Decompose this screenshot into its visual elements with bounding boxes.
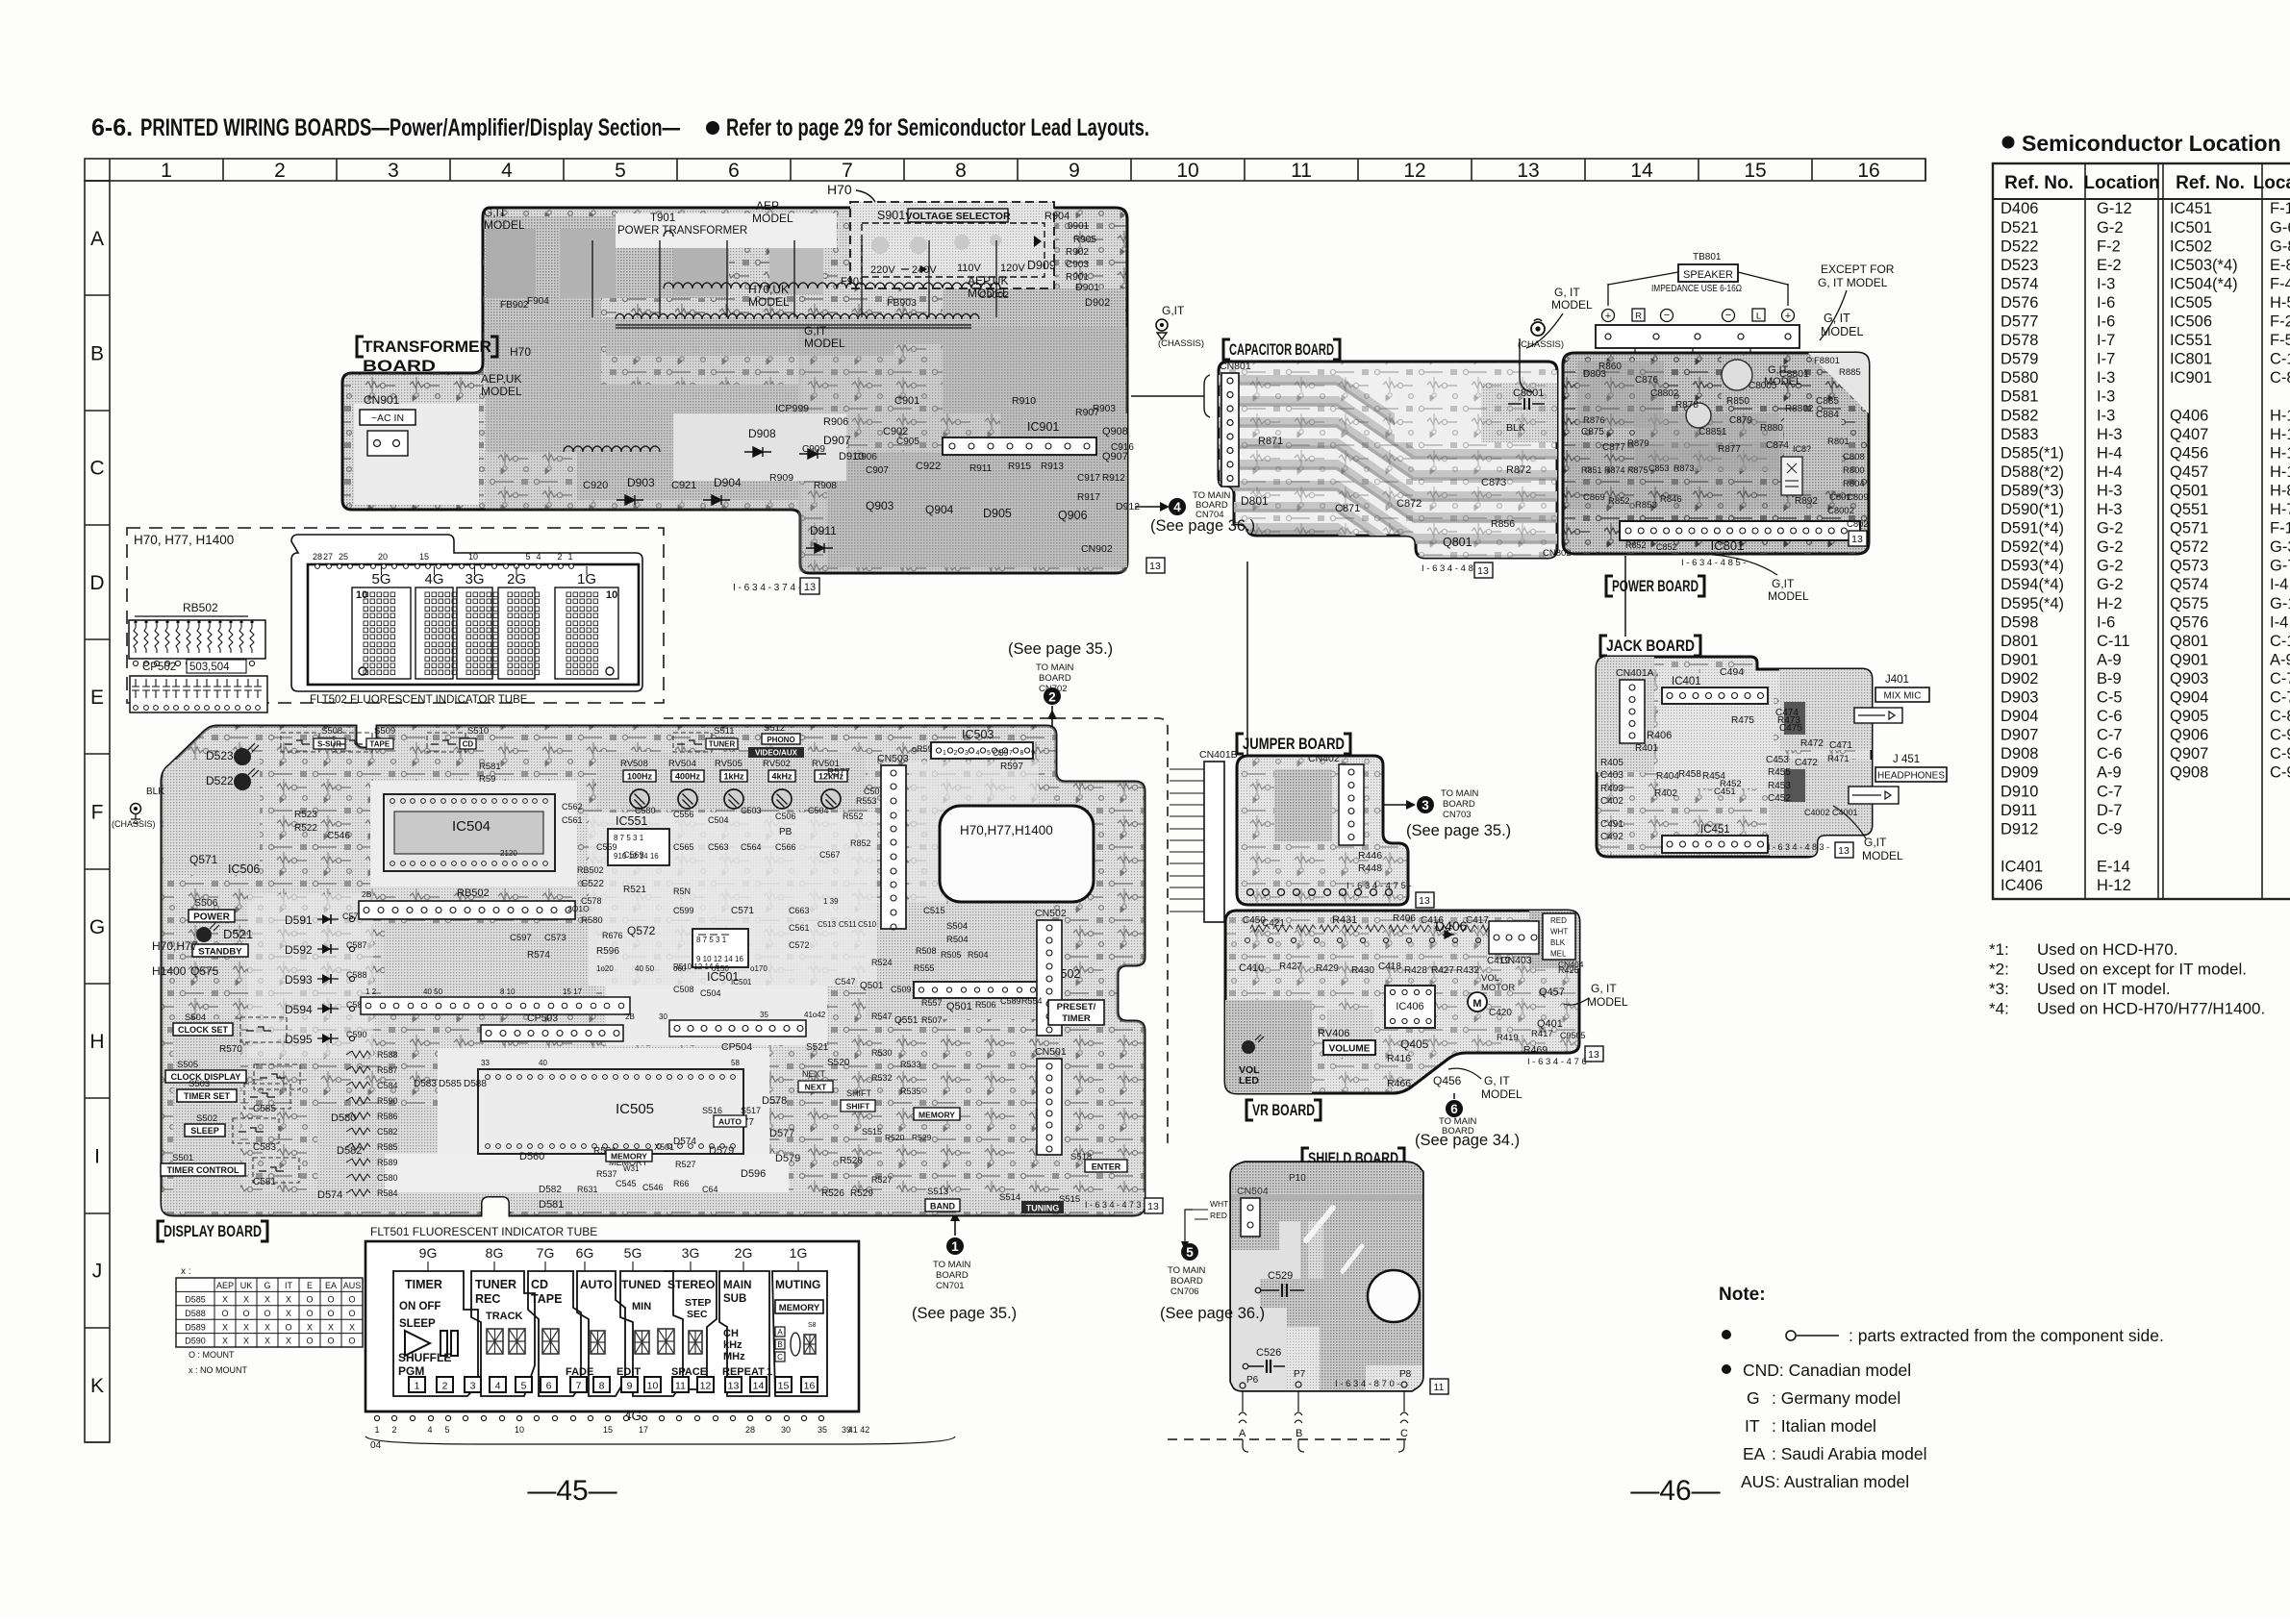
svg-text:I - 6 3 4 - 4 8 3 -: I - 6 3 4 - 4 8 3 - [1768, 842, 1829, 852]
svg-text:4: 4 [427, 1425, 432, 1435]
svg-text:B-9: B-9 [2097, 670, 2122, 687]
svg-text:R66: R66 [673, 1179, 690, 1188]
equalizer trimmer row RV508 RV504 RV505 RV502 RV501 [620, 759, 847, 809]
svg-text:C876: C876 [1635, 375, 1658, 386]
svg-text:R507: R507 [921, 1015, 943, 1025]
svg-text:R446: R446 [1358, 850, 1382, 862]
svg-text:35: 35 [760, 1011, 768, 1019]
svg-text:D585(*1): D585(*1) [2001, 444, 2064, 462]
svg-text:C529: C529 [1268, 1270, 1293, 1282]
svg-text:15: 15 [419, 552, 429, 562]
svg-text:CN703: CN703 [1443, 810, 1472, 820]
svg-text:R587: R587 [377, 1065, 398, 1075]
svg-text:C920: C920 [583, 480, 608, 491]
svg-text:2: 2 [557, 552, 562, 562]
svg-text:I-3: I-3 [2097, 275, 2115, 292]
svg-text:H-13: H-13 [2270, 463, 2290, 481]
svg-text:6: 6 [728, 160, 740, 182]
svg-text:G-2: G-2 [2097, 538, 2124, 556]
svg-text:C-5: C-5 [2097, 689, 2123, 707]
svg-text:Q571: Q571 [189, 853, 218, 866]
svg-text:o60: o60 [673, 964, 687, 973]
svg-text:R905: R905 [1073, 235, 1096, 245]
svg-text:G-8: G-8 [2270, 237, 2290, 255]
svg-text:A: A [777, 1328, 783, 1337]
diode column D591-D595 [285, 912, 367, 1046]
svg-text:16: 16 [1857, 160, 1879, 182]
svg-text:R402: R402 [1654, 788, 1677, 799]
svg-text:M: M [1472, 998, 1481, 1010]
svg-text:JACK BOARD: JACK BOARD [1606, 637, 1695, 655]
jack board outline and texture [1597, 657, 1875, 859]
except for G IT model label [1818, 262, 1895, 340]
svg-text:30: 30 [659, 1012, 667, 1021]
svg-text:C403: C403 [1600, 770, 1623, 781]
svg-text:O: O [306, 1309, 313, 1318]
svg-text:CN402: CN402 [1308, 753, 1340, 764]
svg-text:I-6: I-6 [2097, 294, 2115, 312]
svg-text:10: 10 [468, 552, 478, 562]
svg-text:R554: R554 [1021, 996, 1043, 1006]
VR board top resistor row [1246, 925, 1504, 943]
svg-text:D592(*4): D592(*4) [2001, 538, 2064, 556]
sheet code 13 transformer [800, 578, 819, 594]
mount option table [176, 1266, 363, 1375]
svg-text:R676: R676 [602, 931, 623, 940]
svg-text:R406: R406 [1647, 730, 1672, 741]
svg-text:Q501: Q501 [2170, 482, 2208, 499]
svg-text:G-1: G-1 [2270, 595, 2290, 612]
svg-text:MODEL: MODEL [484, 218, 525, 232]
VR board outline and texture [1225, 911, 1579, 1096]
svg-text:R466: R466 [1387, 1078, 1411, 1089]
svg-text:D905: D905 [983, 507, 1012, 520]
svg-text:IC504: IC504 [452, 818, 491, 835]
svg-text:D523: D523 [2001, 257, 2038, 274]
svg-text:0901: 0901 [1068, 221, 1090, 232]
svg-text:WHT: WHT [1550, 928, 1568, 937]
svg-text:D522: D522 [2001, 237, 2038, 255]
svg-text:C802: C802 [1847, 519, 1869, 530]
svg-text:D579: D579 [775, 1153, 800, 1164]
svg-text:R851: R851 [1581, 465, 1602, 475]
dashed boundary lines [664, 718, 1410, 1439]
svg-text:4kHz: 4kHz [771, 772, 793, 782]
svg-text:D406: D406 [1435, 918, 1468, 934]
grid ruler left band with row letters A-K [85, 181, 110, 1442]
svg-text:R856: R856 [1491, 518, 1515, 530]
svg-text:C587: C587 [346, 940, 367, 950]
svg-text:C922: C922 [916, 461, 941, 472]
svg-text:C-6: C-6 [2097, 708, 2123, 725]
svg-text:R860: R860 [1598, 362, 1622, 372]
svg-text:O: O [264, 1309, 270, 1318]
svg-text:STANDBY: STANDBY [198, 947, 242, 958]
svg-text:H-12: H-12 [2270, 407, 2290, 424]
svg-text:F-1: F-1 [2270, 520, 2290, 537]
svg-text:4: 4 [976, 750, 980, 757]
svg-text:13: 13 [1149, 561, 1161, 572]
svg-text:R879: R879 [1627, 438, 1649, 449]
svg-text:C522: C522 [581, 879, 604, 889]
svg-text:13: 13 [1477, 565, 1489, 577]
svg-text:R553: R553 [856, 796, 877, 806]
svg-text:D903: D903 [2001, 689, 2038, 707]
svg-text:4: 4 [1173, 500, 1181, 514]
svg-text:STEREO: STEREO [667, 1278, 715, 1291]
svg-text:Q572: Q572 [2170, 538, 2208, 556]
svg-text:C917: C917 [1077, 473, 1100, 484]
svg-text:C545: C545 [616, 1179, 637, 1188]
svg-text:C453: C453 [1766, 755, 1789, 765]
svg-text:UK: UK [240, 1281, 253, 1290]
svg-text:I-3: I-3 [2097, 369, 2115, 387]
svg-text:C583: C583 [253, 1142, 276, 1153]
svg-text:R520: R520 [885, 1133, 905, 1142]
svg-text:G-2: G-2 [2097, 520, 2124, 537]
svg-text:Q572: Q572 [627, 924, 656, 937]
svg-text:C580: C580 [635, 806, 656, 815]
svg-text:STEP: STEP [685, 1297, 711, 1309]
svg-text:C504: C504 [708, 815, 729, 825]
svg-text:D560: D560 [519, 1151, 544, 1162]
svg-text:IC406: IC406 [2001, 877, 2043, 894]
svg-text:3: 3 [388, 160, 399, 182]
svg-text:X: X [264, 1337, 270, 1346]
svg-text:C-7: C-7 [2097, 783, 2123, 800]
svg-text:*3:: *3: [1989, 980, 2009, 998]
svg-text:SLEEP: SLEEP [399, 1318, 436, 1330]
svg-text:R873: R873 [1673, 463, 1695, 473]
svg-text:R533: R533 [900, 1060, 921, 1069]
svg-text:MODEL: MODEL [748, 295, 790, 309]
C8001 capacitor above board [1508, 338, 1545, 410]
svg-text:X: X [222, 1295, 228, 1305]
svg-text:−: − [1664, 310, 1670, 321]
svg-text:AUTO: AUTO [718, 1117, 742, 1127]
svg-text:Q906: Q906 [2170, 727, 2208, 744]
svg-text:R527: R527 [871, 1175, 893, 1185]
svg-text:D908: D908 [2001, 745, 2038, 762]
capacitor board part number I-634-484 [1422, 563, 1487, 574]
svg-text:CN503: CN503 [877, 753, 909, 764]
svg-text:C869: C869 [1583, 492, 1605, 503]
svg-text:C573: C573 [544, 933, 566, 943]
svg-text:Q457: Q457 [2170, 463, 2208, 481]
CN504 connector on shield board [1181, 1186, 1269, 1251]
svg-text:C410: C410 [1239, 962, 1264, 974]
svg-text:C452: C452 [1768, 793, 1791, 804]
svg-text:X501: X501 [654, 1142, 674, 1152]
svg-text:TRACK: TRACK [486, 1311, 523, 1322]
svg-text:IC451: IC451 [2170, 200, 2212, 217]
svg-text:K: K [90, 1375, 104, 1397]
svg-text:41o42: 41o42 [804, 1011, 826, 1019]
svg-text:G, IT: G, IT [1554, 286, 1580, 299]
svg-text:8 10: 8 10 [500, 987, 516, 996]
svg-text:C599: C599 [673, 906, 694, 915]
svg-text:IC406: IC406 [1396, 1001, 1423, 1012]
svg-text:S513: S513 [927, 1187, 948, 1197]
svg-text:R535: R535 [900, 1087, 921, 1096]
svg-text:G,IT: G,IT [1772, 577, 1795, 590]
svg-text:13: 13 [1838, 845, 1850, 857]
svg-text:D910: D910 [2001, 783, 2038, 800]
svg-text:X: X [243, 1337, 249, 1346]
svg-text:28: 28 [313, 552, 322, 562]
svg-text:8G: 8G [486, 1245, 504, 1261]
svg-text:D580: D580 [331, 1112, 356, 1124]
svg-text:R910: R910 [1012, 395, 1036, 407]
svg-text:IMPEDANCE USE 6-16Ω: IMPEDANCE USE 6-16Ω [1651, 284, 1742, 294]
svg-text:R912: R912 [1102, 473, 1125, 484]
power board outline and texture [1563, 353, 1869, 554]
svg-text:R590: R590 [377, 1096, 398, 1106]
transformer board outline and copper texture [342, 208, 1127, 573]
svg-text:R8802: R8802 [1785, 404, 1814, 414]
svg-text:MIX MIC: MIX MIC [1884, 691, 1922, 702]
svg-text:D591(*4): D591(*4) [2001, 520, 2064, 537]
svg-text:I-6: I-6 [2097, 613, 2115, 631]
svg-text:R427: R427 [1431, 965, 1454, 976]
sheet code 13 VR board [1585, 1046, 1603, 1062]
svg-text:8 7 5 3 1: 8 7 5 3 1 [696, 936, 727, 944]
svg-text:PB: PB [779, 827, 793, 837]
jumper part number I-634-475 [1346, 881, 1412, 891]
svg-text:C663: C663 [789, 906, 810, 915]
svg-text:TO MAIN: TO MAIN [933, 1260, 971, 1270]
svg-text:BOARD: BOARD [1170, 1276, 1203, 1287]
svg-text:D585: D585 [439, 1079, 462, 1089]
svg-text:C50: C50 [864, 787, 880, 796]
svg-text:*1:: *1: [1989, 940, 2009, 959]
svg-text:3: 3 [1422, 798, 1429, 812]
svg-text:C509: C509 [891, 985, 912, 994]
svg-text:C565: C565 [673, 842, 694, 852]
svg-text:H70, H77, H1400: H70, H77, H1400 [134, 533, 234, 547]
svg-text:AEP,UK: AEP,UK [481, 372, 521, 386]
svg-text:*4:: *4: [1989, 1000, 2009, 1018]
svg-text:CN502: CN502 [1035, 908, 1067, 919]
callout 4 to main board CN704 [1135, 490, 1255, 535]
svg-text:D581: D581 [539, 1199, 564, 1211]
svg-text:C809: C809 [1847, 492, 1869, 503]
jumper board name label [1237, 734, 1350, 754]
svg-text:C420: C420 [1489, 1008, 1512, 1018]
svg-text:EA: EA [325, 1281, 337, 1290]
svg-text:JUMPER BOARD: JUMPER BOARD [1243, 735, 1345, 753]
svg-text:H-5: H-5 [2270, 294, 2290, 312]
CN901 AC IN connector [360, 393, 415, 456]
svg-text:C504: C504 [808, 806, 829, 815]
svg-text:17: 17 [639, 1425, 648, 1435]
svg-text:R522: R522 [294, 823, 317, 834]
svg-text:04: 04 [370, 1440, 382, 1451]
svg-text:R850: R850 [1726, 396, 1749, 407]
svg-text:P10: P10 [1289, 1173, 1306, 1184]
svg-text:C885: C885 [1816, 396, 1839, 407]
svg-text:G, IT MODEL: G, IT MODEL [1818, 276, 1888, 289]
svg-text:G, IT: G, IT [1591, 982, 1617, 995]
svg-text:R555: R555 [914, 963, 935, 973]
svg-text:BLK: BLK [146, 787, 164, 797]
svg-text:C580: C580 [377, 1173, 398, 1183]
svg-text:C588: C588 [346, 970, 367, 980]
svg-text:25: 25 [339, 552, 348, 562]
svg-text:C901: C901 [894, 395, 919, 407]
svg-text:F-4: F-4 [2270, 275, 2290, 292]
svg-text:X: X [243, 1322, 249, 1332]
svg-text:X: X [286, 1309, 291, 1318]
svg-text:R537: R537 [596, 1169, 617, 1179]
svg-text:C556: C556 [673, 810, 694, 819]
svg-text:D596: D596 [741, 1168, 766, 1180]
svg-text:H-4: H-4 [2097, 463, 2123, 481]
svg-text:O: O [348, 1295, 355, 1305]
svg-text:TAPE: TAPE [369, 740, 390, 749]
svg-text:S504: S504 [185, 1012, 206, 1023]
svg-text:ENTER: ENTER [1092, 1162, 1121, 1172]
svg-text:R804: R804 [1843, 479, 1865, 489]
svg-text:I - 6 3 4 - 8 7 0 -: I - 6 3 4 - 8 7 0 - [1335, 1379, 1400, 1389]
svg-text:PRINTED WIRING BOARDS—Power/Am: PRINTED WIRING BOARDS—Power/Amplifier/Di… [140, 114, 680, 141]
svg-text:ICP999: ICP999 [775, 403, 809, 414]
svg-text:BOARD: BOARD [363, 357, 436, 375]
svg-text:: Saudi Arabia model: : Saudi Arabia model [1772, 1444, 1927, 1463]
svg-text:D580: D580 [2001, 369, 2038, 387]
svg-text:G-3: G-3 [2270, 538, 2290, 556]
speaker terminal TB801 block [1596, 252, 1799, 373]
svg-text:CP503: CP503 [527, 1012, 558, 1024]
display board outline and texture [162, 726, 1145, 1216]
svg-text:MEMORY: MEMORY [611, 1152, 647, 1162]
svg-text:I-6: I-6 [2097, 313, 2115, 331]
IC406 on VR board [1385, 986, 1435, 1028]
svg-text:(See page 35.): (See page 35.) [912, 1305, 1017, 1322]
svg-text:F-14: F-14 [2270, 200, 2290, 217]
CN404 connector with wire color labels [1543, 913, 1584, 969]
svg-text:o170: o170 [750, 964, 768, 973]
svg-text:R504: R504 [968, 950, 989, 960]
transformer board name label [357, 337, 497, 375]
svg-text:B: B [90, 342, 104, 364]
svg-text:H: H [89, 1031, 104, 1053]
jumper board outline and texture [1237, 756, 1408, 905]
svg-text:14: 14 [1630, 160, 1653, 182]
svg-text:R631: R631 [577, 1185, 598, 1194]
svg-text:B: B [777, 1340, 782, 1349]
svg-text:R585: R585 [377, 1142, 398, 1152]
svg-text:14: 14 [753, 1381, 765, 1392]
svg-text:Note:: Note: [1719, 1285, 1766, 1305]
svg-text:A: A [90, 228, 104, 250]
svg-text:O: O [306, 1295, 313, 1305]
svg-text:D588: D588 [185, 1309, 206, 1318]
svg-text:E-8: E-8 [2270, 257, 2290, 274]
callout 2 to main board CN702 [1008, 640, 1113, 729]
svg-text:C921: C921 [671, 480, 696, 491]
svg-text:D909: D909 [2001, 764, 2038, 782]
svg-text:(CHASSIS): (CHASSIS) [112, 819, 156, 829]
svg-text:11: 11 [1291, 160, 1312, 182]
svg-text:5: 5 [521, 1381, 527, 1392]
svg-text:S8: S8 [808, 1322, 817, 1329]
svg-text:RB502: RB502 [183, 601, 218, 614]
svg-text:SUB: SUB [723, 1293, 746, 1305]
svg-text:I-4: I-4 [2270, 576, 2288, 593]
svg-text:Used on IT model.: Used on IT model. [2037, 980, 2171, 998]
svg-text:IC503: IC503 [962, 728, 994, 741]
svg-text:G, IT: G, IT [1484, 1074, 1510, 1087]
svg-text:VOLTAGE SELECTOR: VOLTAGE SELECTOR [905, 211, 1011, 222]
svg-text:R580: R580 [581, 915, 603, 926]
callout 5 to main board CN706 [1160, 1243, 1265, 1322]
rounded blank area H70 H77 H1400 on display board [940, 806, 1094, 902]
svg-text:2: 2 [954, 750, 958, 757]
svg-text:S508: S508 [321, 726, 342, 737]
svg-text:CLOCK SET: CLOCK SET [178, 1025, 229, 1035]
svg-text:R574: R574 [527, 950, 550, 961]
shield board outline and texture [1231, 1162, 1423, 1393]
svg-text:−: − [1725, 310, 1731, 321]
svg-text:I-3: I-3 [2097, 407, 2115, 424]
svg-text:5: 5 [1186, 1245, 1194, 1260]
svg-text:Q903: Q903 [866, 499, 894, 512]
svg-text:L: L [1756, 312, 1761, 322]
svg-text:Location: Location [2083, 173, 2159, 193]
svg-text:10: 10 [606, 589, 617, 601]
svg-text:+: + [1605, 311, 1611, 322]
svg-text:O: O [285, 1322, 291, 1332]
svg-text:I-7: I-7 [2097, 332, 2115, 349]
svg-text:IT: IT [1745, 1416, 1760, 1436]
svg-text:D406: D406 [2001, 200, 2038, 217]
svg-text:C-6: C-6 [2097, 745, 2123, 762]
svg-text:x : NO MOUNT: x : NO MOUNT [189, 1365, 247, 1375]
svg-text:SPEAKER: SPEAKER [1683, 269, 1733, 281]
svg-text:CN501: CN501 [1035, 1046, 1067, 1058]
svg-text:S521: S521 [806, 1042, 829, 1053]
svg-text:D588(*2): D588(*2) [2001, 463, 2064, 481]
svg-text:D: D [89, 572, 104, 594]
svg-text:TIMER SET: TIMER SET [184, 1091, 231, 1101]
svg-text:R469: R469 [1523, 1044, 1548, 1056]
svg-text:Q573: Q573 [2170, 558, 2208, 575]
svg-text:R428: R428 [1404, 965, 1427, 976]
svg-text:R432: R432 [1456, 965, 1479, 976]
svg-text:D801: D801 [1241, 494, 1269, 508]
CN402 connector on jumper board [1308, 753, 1364, 845]
svg-text:B: B [1296, 1428, 1302, 1439]
svg-text:VOLUME: VOLUME [1329, 1044, 1371, 1055]
svg-text:2: 2 [1048, 690, 1056, 705]
svg-text:6: 6 [1450, 1102, 1458, 1116]
svg-text:R504: R504 [946, 935, 969, 945]
svg-text:J401: J401 [1885, 674, 1909, 686]
svg-text:CN801: CN801 [1220, 361, 1251, 372]
svg-text:R59: R59 [479, 774, 495, 785]
svg-text:AUS: AUS [343, 1281, 362, 1290]
svg-text:SHUFFLE: SHUFFLE [398, 1351, 451, 1364]
svg-text:C561: C561 [562, 815, 583, 825]
svg-text:H70,UK: H70,UK [748, 283, 789, 296]
svg-text:RV505: RV505 [715, 759, 742, 769]
svg-text:D521: D521 [2001, 219, 2038, 237]
svg-text:C-8: C-8 [2270, 708, 2290, 725]
svg-text:C877: C877 [1602, 442, 1625, 453]
svg-text:CN802: CN802 [1543, 548, 1572, 559]
svg-text:IC502: IC502 [2170, 237, 2212, 255]
